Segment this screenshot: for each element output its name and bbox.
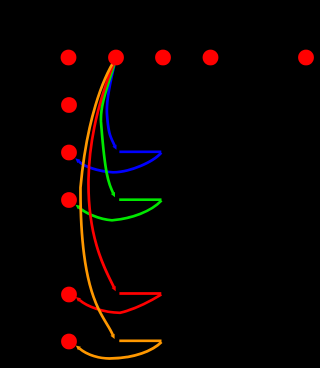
edge blue loop: return arc back to node (0,2) [79, 153, 161, 173]
node (0,2) left column [61, 145, 77, 161]
edge orange loop: horizontal line from (1,6) rightward [119, 339, 161, 342]
node (3,0) top row [203, 50, 219, 66]
edge green loop: horizontal line from (1,3) rightward [119, 198, 161, 201]
edge red loop: horizontal line from (1,5) rightward [119, 292, 161, 295]
edge green loop: return arc back to node (0,3) [79, 201, 161, 221]
edge orange descending: from top node (1,0) down to point (1,6) [80, 58, 116, 335]
arrowhead of orange descending edge [111, 334, 115, 339]
arrowhead of red loop at node (0,5) [76, 297, 81, 302]
arrowhead of green descending edge [111, 192, 115, 197]
node (5,0) top row far right [298, 50, 314, 66]
edge orange loop: return arc back to node (0,6) [80, 342, 162, 358]
node (0,0) top-left [61, 50, 77, 66]
arrowhead of red descending edge [112, 286, 116, 291]
node (0,1) left column [61, 97, 77, 113]
node (2,0) top row [155, 50, 171, 66]
arrowhead of green loop at node (0,3) [76, 205, 81, 210]
node (0,5) left column [61, 287, 77, 303]
arrowhead of orange loop at node (0,6) [76, 346, 81, 351]
node (0,6) left column [61, 334, 77, 350]
arrowhead of blue descending edge [112, 145, 116, 150]
node (1,0) top row source [108, 50, 124, 66]
arrowhead of blue loop at node (0,2) [75, 158, 80, 163]
edge red descending: from top node (1,0) down to point (1,5) [88, 58, 116, 287]
edge red loop: return arc back to node (0,5) [80, 295, 162, 313]
edge green descending: from top node (1,0) down to point (1,3) [101, 58, 116, 193]
edge blue descending: from top node (1,0) down to point (1,2) [107, 58, 116, 146]
edge blue loop: horizontal line from (1,2) rightward [119, 150, 161, 153]
node (0,3) left column [61, 192, 77, 208]
